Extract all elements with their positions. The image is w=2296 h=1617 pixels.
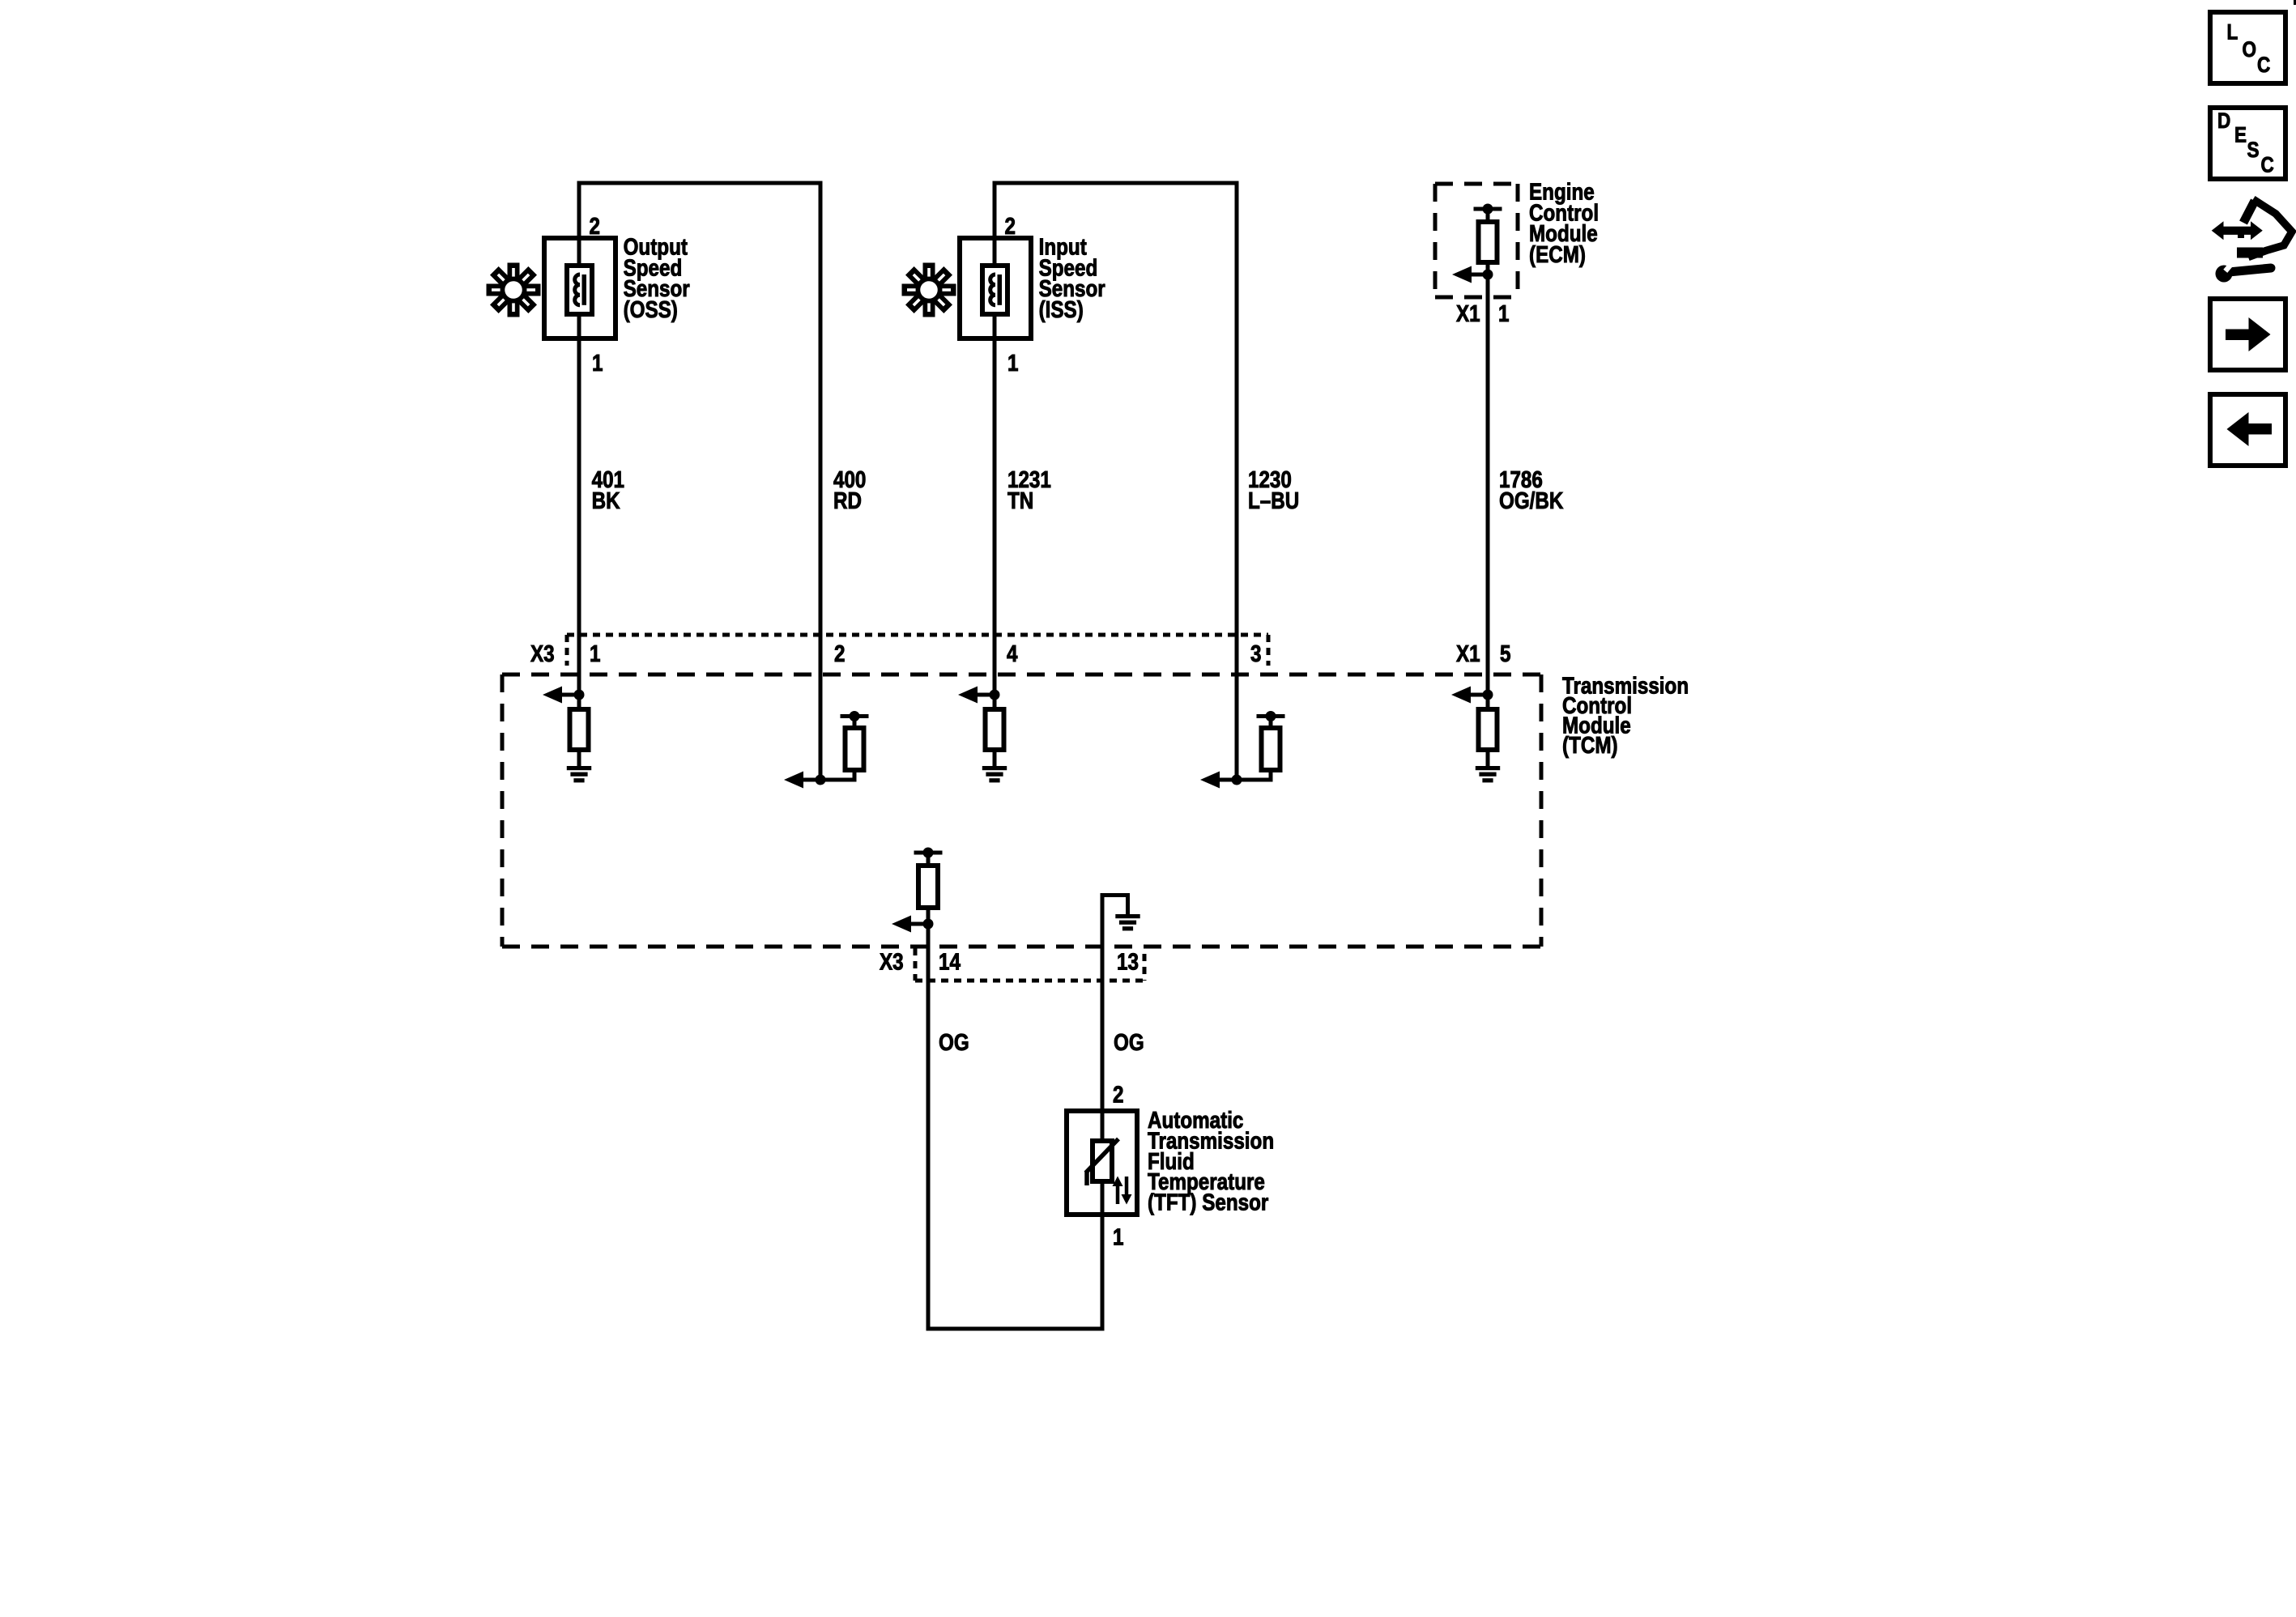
TCM pin1 ground (577, 750, 581, 766)
svg-text:1: 1 (1113, 1224, 1123, 1250)
TCM pin5 ground (1486, 750, 1490, 766)
transmission control module TCM dashed box (502, 673, 1541, 677)
svg-text:TN: TN (1007, 487, 1033, 513)
TCM pin4 ground (993, 750, 997, 766)
wire 401 BK vertical (OSS pin1 to TCM X3-1) (577, 238, 581, 695)
svg-text:L–BU: L–BU (1248, 487, 1299, 513)
wire 400 RD vertical (OSS pin2 to TCM pin2) (819, 183, 823, 780)
icon: wrench (2229, 268, 2271, 272)
svg-text:1: 1 (590, 640, 600, 666)
TFT flow arrows (1116, 1185, 1120, 1204)
svg-text:OG: OG (939, 1029, 969, 1055)
svg-text:5: 5 (1500, 640, 1510, 666)
svg-text:2: 2 (1005, 213, 1016, 239)
svg-text:4: 4 (1007, 640, 1018, 666)
svg-text:C: C (2261, 154, 2274, 177)
svg-text:2: 2 (590, 213, 600, 239)
svg-text:1: 1 (1498, 300, 1509, 326)
icon: diagnostic outline (2243, 201, 2255, 223)
svg-text:(ISS): (ISS) (1039, 296, 1084, 322)
svg-text:3: 3 (1250, 640, 1261, 666)
svg-text:X1: X1 (1456, 640, 1480, 666)
lower connector right bracket (1143, 954, 1147, 981)
output speed sensor OSS box (544, 238, 616, 338)
wire: TFT bottom return (926, 1327, 1105, 1331)
icon: back arrow box (2210, 394, 2285, 466)
input speed sensor ISS box (960, 238, 1031, 338)
TCM pin3 supply bar (1269, 717, 1273, 729)
icon: forward arrow box (2210, 299, 2285, 370)
svg-text:(OSS): (OSS) (624, 296, 678, 322)
svg-text:D: D (2217, 109, 2230, 133)
wire 1231 TN vertical (ISS pin1 to TCM pin4) (993, 238, 997, 695)
engine control module ECM dashed box (1435, 182, 1518, 186)
gear icon ISS (902, 263, 956, 317)
node: ISS pin2 top wire (993, 181, 997, 239)
node: OSS pin2 top wire (577, 181, 581, 239)
svg-text:BK: BK (592, 487, 620, 513)
TCM pin5 input arrow (1461, 693, 1488, 697)
svg-text:E: E (2234, 124, 2247, 147)
TCM pin3 pull-up resistor (1237, 778, 1271, 782)
svg-text:2: 2 (834, 640, 845, 666)
TCM pin1 pull resistor (577, 695, 581, 709)
svg-text:1: 1 (592, 350, 603, 376)
svg-text:13: 13 (1117, 949, 1139, 975)
svg-text:X3: X3 (880, 949, 904, 975)
svg-text:2: 2 (1113, 1082, 1123, 1108)
connector X3 left bracket (565, 635, 569, 666)
ECM output arrow (1462, 273, 1488, 277)
wire: ISS loop top horizontal (993, 181, 1239, 185)
svg-text:1: 1 (1007, 350, 1018, 376)
TCM pin2 pull-up resistor (820, 778, 854, 782)
TCM X3-14 pull-up resistor (926, 853, 931, 866)
svg-text:S: S (2247, 138, 2260, 162)
connector X3 dotted line (lower) (915, 979, 1144, 983)
svg-text:OG/BK: OG/BK (1499, 487, 1563, 513)
svg-text:(TCM): (TCM) (1562, 732, 1618, 758)
svg-text:(TFT) Sensor: (TFT) Sensor (1148, 1189, 1268, 1215)
wire: OSS loop top horizontal (577, 181, 823, 185)
page corner mark (2294, 0, 2296, 5)
TCM X3-14 output arrow (926, 908, 931, 924)
svg-text:X3: X3 (530, 640, 555, 666)
TCM X3-13 internal ground (1102, 893, 1130, 897)
connector X3 dotted line (upper) (567, 633, 1268, 637)
ECM junction node (1486, 262, 1490, 274)
icon: diagnostic double arrow (2222, 227, 2251, 235)
svg-text:OG: OG (1114, 1029, 1144, 1055)
svg-text:X1: X1 (1456, 300, 1480, 326)
svg-text:O: O (2243, 38, 2257, 62)
TFT thermistor symbol (1093, 1141, 1112, 1181)
icon: LOC box (2210, 12, 2285, 83)
TCM pin1 input arrow (552, 693, 579, 697)
automatic transmission fluid temperature TFT sensor box (1067, 1111, 1137, 1215)
ECM resistor (1486, 209, 1490, 222)
TCM pin2 output arrow (794, 778, 820, 782)
TCM pin4 input arrow (968, 693, 995, 697)
wire OG (TCM X3-14 down to TFT loop) (926, 924, 931, 1329)
wire 1786 OG/BK (ECM X1-1 to TCM X1-5) (1486, 274, 1490, 695)
connector X3 right bracket (1267, 635, 1271, 666)
TCM pin3 output arrow (1210, 778, 1237, 782)
TCM pin5 pull resistor (1486, 695, 1490, 709)
svg-text:(ECM): (ECM) (1529, 241, 1586, 267)
svg-text:L: L (2227, 21, 2238, 45)
svg-text:RD: RD (833, 487, 862, 513)
TCM X3-14 supply bar (914, 851, 943, 855)
TCM pin4 pull resistor (993, 695, 997, 709)
ECM supply bar (1474, 207, 1502, 211)
TCM pin2 supply bar (853, 717, 857, 729)
lower connector left bracket (914, 948, 918, 981)
gear icon OSS (487, 263, 541, 317)
svg-text:C: C (2257, 53, 2270, 77)
wire OG (TFT pin2 up to TCM X3-13) (1101, 893, 1105, 1329)
wire 1230 L-BU vertical (ISS pin2 to TCM pin3) (1235, 183, 1239, 780)
svg-text:14: 14 (939, 949, 961, 975)
icon: DESC box (2210, 108, 2285, 179)
